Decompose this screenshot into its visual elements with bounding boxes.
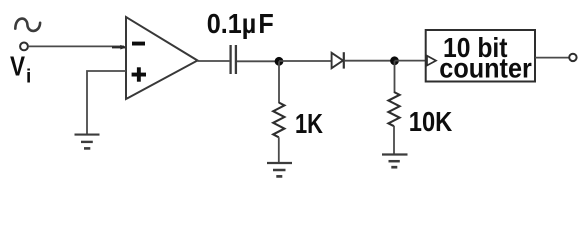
arrowhead on input wire [112,46,125,48]
wire node B down to R2 [394,61,396,93]
capacitor C1 plates [229,45,231,74]
ground (R1) [267,162,292,164]
input terminal circle [20,43,28,51]
junction node A [275,57,284,66]
wire diode to node B [345,60,394,62]
op-amp minus sign [132,42,145,46]
resistor R1 zigzag [273,103,284,138]
svg-text:1K: 1K [295,108,323,139]
wire node A to diode [279,60,331,62]
junction node B [390,56,399,65]
svg-text:counter: counter [439,53,532,84]
wire node B to counter [395,60,427,62]
wire R2 to ground [393,126,395,154]
op-amp plus sign [132,73,146,77]
wire node A down to R1 [278,61,280,103]
resistor R2 zigzag [388,92,399,126]
wire input to op-amp [29,45,124,47]
diode D1 [332,53,343,68]
wire counter output [535,57,569,59]
AC source sine symbol [15,19,40,31]
counter box U2 [426,30,535,82]
ground (op-amp plus input) [75,134,100,136]
wire to plus input [87,71,126,134]
wire op-amp output [198,60,230,62]
ground (R2) [382,153,408,155]
op-amp U1 [126,17,198,99]
svg-text:0.1µ F: 0.1µ F [207,8,274,39]
output terminal circle [569,54,576,61]
svg-text:i: i [26,67,31,88]
wire capacitor to node A [237,60,278,62]
arrowhead into counter [427,56,436,66]
svg-text:10K: 10K [409,106,453,137]
wire R1 to ground [278,137,280,162]
svg-text:V: V [10,51,26,82]
